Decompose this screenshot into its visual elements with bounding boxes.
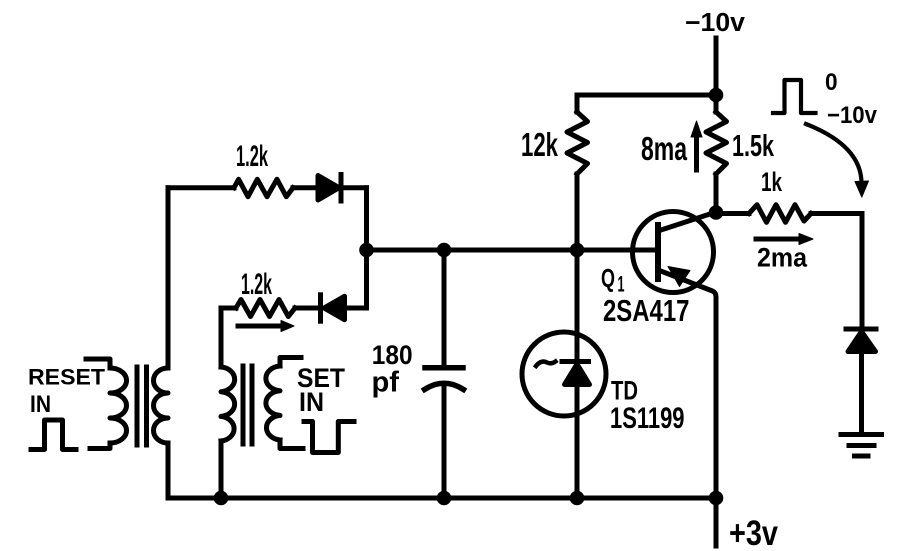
resistor 1.2k (lower): [236, 300, 295, 317]
svg-text:0: 0: [825, 69, 838, 96]
svg-text:2SA417: 2SA417: [603, 293, 690, 328]
wire 1k to output corner: [811, 211, 862, 216]
wire 1.5k bottom to collector node: [714, 174, 719, 213]
node line (main horizontal net at y=250): [367, 248, 659, 253]
svg-text:1.5k: 1.5k: [732, 128, 775, 163]
svg-text:−10v: −10v: [685, 9, 746, 37]
T2 right winding bottom lead: [280, 440, 303, 449]
svg-text:pf: pf: [372, 367, 400, 399]
transformer T1 core: [135, 367, 140, 445]
svg-text:+3v: +3v: [729, 514, 778, 551]
wire vertical x=366.5 joining both steering branches: [364, 188, 369, 308]
bottom rail wire: [168, 496, 716, 501]
transformer T1 primary winding: [110, 368, 127, 443]
transistor Q1 collector lead: [658, 213, 715, 232]
output clamp diode (points up): [846, 327, 876, 332]
transformer T2 right winding: [266, 366, 280, 440]
svg-text:1S1199: 1S1199: [610, 402, 685, 435]
resistor 1.2k (top): [234, 179, 293, 196]
svg-text:IN: IN: [30, 391, 51, 418]
wire tunnel-diode branch vertical to bottom rail: [575, 250, 580, 498]
+3v supply lead: [714, 498, 719, 546]
wire top branch left horizontal: [168, 185, 234, 190]
capacitor C1 wire to bottom rail: [442, 385, 447, 499]
diode D2 (points left): [318, 295, 323, 321]
RESET input pulse waveform: [31, 420, 76, 450]
svg-text:8ma: 8ma: [641, 131, 687, 168]
svg-text:TD: TD: [611, 376, 638, 406]
top rail wire: [577, 93, 716, 98]
tunnel diode TD circle: [522, 332, 606, 416]
capacitor C1 bottom plate (curved): [425, 383, 464, 389]
svg-text:1.2k: 1.2k: [241, 268, 272, 301]
svg-text:RESET: RESET: [28, 365, 105, 390]
tunnel diode tilde mark: [536, 362, 556, 367]
capacitor C1 wire from node: [442, 250, 447, 366]
svg-text:Q: Q: [601, 263, 615, 293]
wire diode D2 to corner: [344, 306, 367, 311]
wire from resistor to diode D1: [293, 185, 319, 190]
T1 primary top lead: [86, 359, 110, 368]
curved arrow from waveform to output node: [806, 124, 862, 184]
ground symbol: [841, 432, 882, 437]
diode D1 (points right): [318, 176, 339, 201]
wire 12k top from rail: [575, 95, 580, 112]
wire 12k bottom to node line: [575, 174, 580, 250]
wire diode D1 to corner, down to node A: [341, 185, 367, 190]
wire output vertical: [860, 214, 865, 330]
svg-text:1k: 1k: [761, 167, 782, 197]
tunnel diode triangle: [565, 364, 590, 385]
wire resistor to diode D2: [295, 306, 319, 311]
junction node (366,250): [359, 243, 374, 258]
capacitor C1 top plate: [425, 365, 463, 371]
wire T1 secondary to bottom rail: [166, 443, 171, 498]
transformer T2 left winding: [221, 367, 235, 441]
transistor Q1 emitter lead: [658, 270, 716, 498]
svg-text:12k: 12k: [521, 127, 558, 164]
junction node bottom rail (577,498): [570, 491, 585, 506]
resistor 12k: [567, 112, 588, 174]
output pulse waveform: [773, 80, 816, 113]
wire left vertical to T1 secondary: [166, 188, 171, 368]
2ma current arrow: [756, 237, 801, 242]
tunnel diode cathode bar: [562, 359, 589, 364]
junction node bottom rail (221,498): [214, 491, 229, 506]
junction node (444,250): [437, 243, 452, 258]
wire 1.5k top: [714, 95, 719, 112]
T1 primary bottom lead: [90, 443, 110, 449]
wire x=221 vertical to T2 left winding: [219, 308, 224, 367]
wire diode to ground: [859, 351, 864, 434]
svg-text:IN: IN: [299, 387, 324, 417]
T2 right winding top lead: [280, 358, 301, 367]
transformer T2 core: [241, 366, 246, 444]
transistor Q1 base bar: [655, 225, 661, 279]
resistor 1.5k: [706, 112, 727, 174]
junction node bottom rail (716,498): [709, 491, 724, 506]
junction node (577,250): [570, 243, 585, 258]
-10v supply lead: [714, 38, 719, 95]
resistor 1k wire from collector node: [716, 211, 749, 216]
wire T2 left winding to bottom rail: [219, 441, 224, 498]
current arrow below lower 1.2k: [238, 324, 283, 329]
8ma current arrow: [694, 134, 699, 170]
junction node collector (716,212.5): [709, 205, 724, 220]
svg-text:1.2k: 1.2k: [236, 140, 268, 173]
junction node top rail (716,95): [709, 88, 724, 103]
transistor Q1 emitter arrow (PNP): [668, 267, 690, 287]
resistor 1k: [749, 205, 811, 223]
transistor Q1 circle: [633, 212, 714, 293]
svg-text:180: 180: [372, 340, 413, 370]
transformer T1 secondary winding: [154, 368, 169, 443]
wire lower branch left corner: [221, 306, 236, 311]
SET input pulse waveform: [304, 422, 354, 453]
svg-text:−10v: −10v: [827, 102, 878, 129]
junction node bottom rail (444,498): [437, 491, 452, 506]
svg-text:2ma: 2ma: [757, 243, 807, 273]
